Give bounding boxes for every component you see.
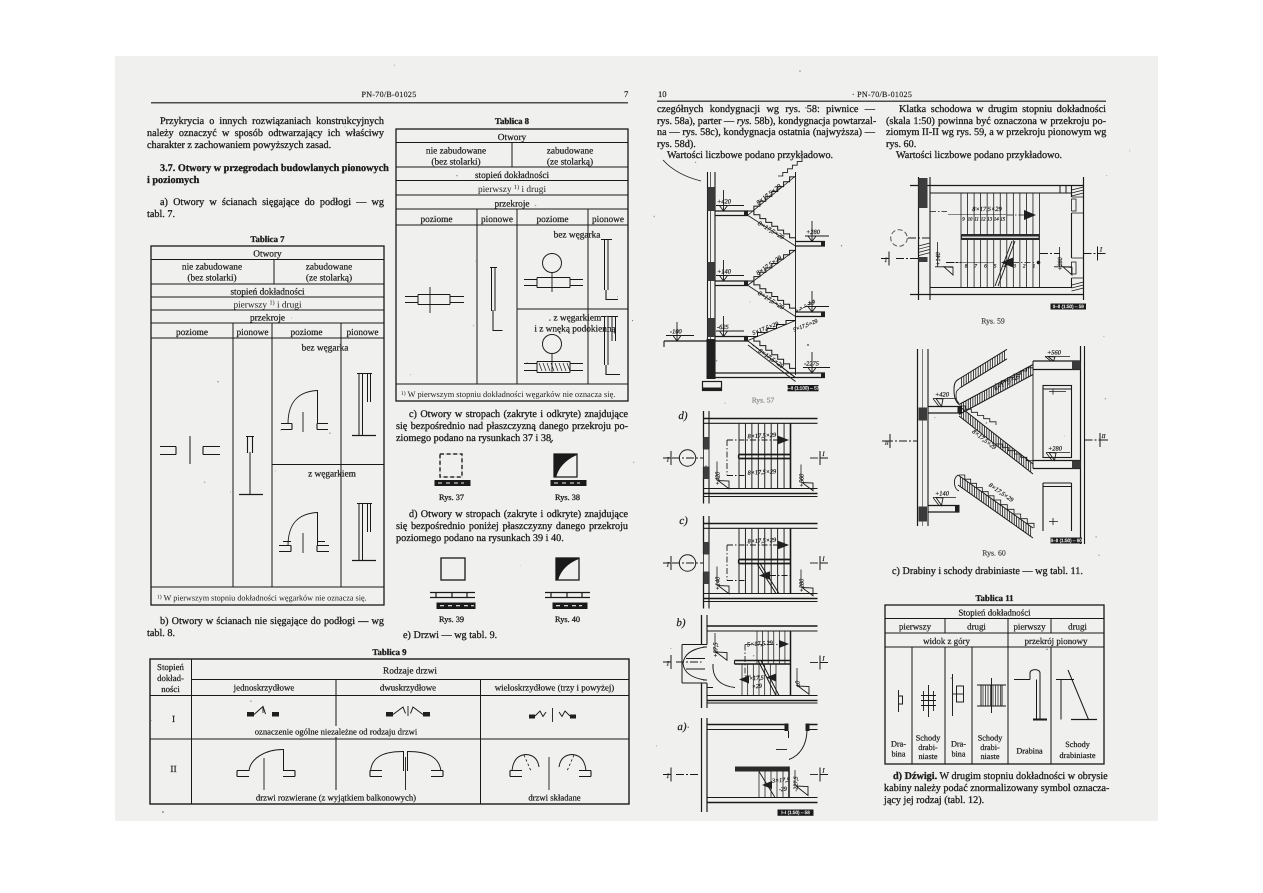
svg-text:I: I (821, 451, 825, 458)
svg-text:I: I (884, 257, 888, 264)
svg-text:±0: ±0 (808, 300, 816, 307)
svg-text:3: 3 (1013, 264, 1016, 270)
svg-text:pierwszy 1) i drugi: pierwszy 1) i drugi (478, 184, 546, 195)
svg-text:5×17,5=29: 5×17,5=29 (793, 319, 819, 334)
svg-text:1) W pierwszym stopniu dokładn: 1) W pierwszym stopniu dokładności węgar… (401, 390, 615, 399)
svg-text:a): a) (677, 721, 687, 733)
svg-text:pionowe: pionowe (346, 328, 378, 338)
svg-text:widok z góry: widok z góry (923, 636, 970, 646)
svg-text:Drabina: Drabina (1016, 747, 1043, 756)
svg-text:drzwi składane: drzwi składane (528, 792, 580, 802)
svg-text:dwuskrzydłowe: dwuskrzydłowe (380, 682, 436, 692)
svg-text:8×17,5×29: 8×17,5×29 (748, 432, 777, 440)
svg-text:drabiniaste: drabiniaste (1060, 751, 1096, 760)
svg-text:11: 11 (974, 217, 979, 223)
svg-text:I–II (1:100) – 57: I–II (1:100) – 57 (787, 386, 820, 391)
svg-text:+420: +420 (717, 199, 732, 206)
svg-text:+140: +140 (717, 269, 732, 276)
svg-text:+280: +280 (799, 578, 806, 592)
svg-text:Rodzaje drzwi: Rodzaje drzwi (383, 666, 437, 676)
svg-text:. z węgarkiem: . z węgarkiem (549, 314, 602, 324)
svg-text:Dra-: Dra- (951, 740, 966, 749)
svg-text:×29: ×29 (752, 684, 762, 691)
svg-text:+140: +140 (715, 576, 722, 590)
svg-text:8×17,5×29: 8×17,5×29 (971, 428, 998, 451)
svg-text:Rys. 59: Rys. 59 (981, 317, 1005, 326)
svg-text:I: I (666, 773, 670, 780)
svg-text:Otwory: Otwory (253, 250, 282, 260)
svg-text:+280: +280 (806, 229, 821, 236)
svg-text:12: 12 (981, 217, 986, 223)
svg-text:I: I (172, 715, 175, 725)
svg-text:13: 13 (987, 217, 992, 223)
svg-text:-100: -100 (670, 329, 683, 336)
svg-text:Stopień dokładności: Stopień dokładności (958, 607, 1031, 617)
svg-text:Dra-: Dra- (891, 740, 906, 749)
svg-text:+280: +280 (1057, 256, 1064, 270)
svg-text:c): c) (679, 515, 688, 527)
svg-text:+87,5: +87,5 (713, 642, 720, 657)
svg-text:+560: +560 (799, 473, 806, 487)
svg-text:bez węgarka: bez węgarka (302, 344, 349, 354)
svg-text:Schody: Schody (916, 734, 941, 743)
svg-text:+420: +420 (715, 471, 722, 485)
svg-text:z węgarkiem: z węgarkiem (308, 470, 357, 480)
svg-text:I: I (821, 656, 825, 663)
svg-text:I: I (666, 561, 670, 568)
svg-text:bina: bina (891, 750, 905, 759)
svg-text:II–II (1:50) – 60: II–II (1:50) – 60 (1051, 538, 1083, 543)
svg-text:przekrój pionowy: przekrój pionowy (1025, 636, 1088, 646)
svg-text:Schody: Schody (978, 734, 1003, 743)
svg-text:poziome: poziome (290, 328, 322, 338)
svg-text:dokład-: dokład- (157, 673, 184, 683)
svg-text:poziome: poziome (536, 215, 568, 225)
svg-text:-29: -29 (779, 787, 787, 794)
svg-text:I: I (1099, 247, 1103, 254)
svg-text:pierwszy: pierwszy (899, 622, 932, 632)
svg-text:+420: +420 (935, 392, 950, 399)
svg-text:drabi-: drabi- (980, 743, 1000, 752)
svg-text:8×17,5×29: 8×17,5×29 (756, 220, 785, 242)
svg-text:2: 2 (1023, 264, 1026, 270)
svg-text:8×17,5×29: 8×17,5×29 (755, 183, 783, 207)
svg-text:przekroje: przekroje (250, 314, 285, 324)
svg-text:(ze stolarką): (ze stolarką) (306, 274, 352, 284)
svg-text:ności: ności (161, 684, 180, 694)
svg-text:8×17,5×29: 8×17,5×29 (755, 254, 784, 277)
svg-text:-2275: -2275 (804, 361, 819, 368)
svg-text:Rys. 60: Rys. 60 (982, 549, 1006, 558)
svg-text:I: I (666, 456, 670, 463)
svg-text:nie zabudowane: nie zabudowane (426, 147, 486, 157)
svg-text:drabi-: drabi- (918, 743, 938, 752)
svg-text:zabudowane: zabudowane (547, 147, 593, 157)
svg-text:+140: +140 (935, 251, 942, 265)
svg-text:-227,5: -227,5 (794, 776, 800, 791)
svg-text:pionowe: pionowe (236, 328, 268, 338)
svg-text:3×17,5: 3×17,5 (771, 777, 790, 784)
svg-text:przekroje: przekroje (494, 199, 529, 209)
svg-text:10: 10 (968, 217, 973, 223)
svg-text:nie zabudowane: nie zabudowane (182, 263, 242, 273)
svg-text:Stopień: Stopień (157, 662, 184, 672)
svg-text:5: 5 (994, 264, 997, 270)
svg-text:II: II (1101, 434, 1107, 440)
svg-text:8×17,5×29: 8×17,5×29 (756, 290, 785, 312)
svg-text:II: II (170, 765, 176, 775)
svg-text:(bez stolarki): (bez stolarki) (431, 158, 480, 168)
svg-text:7: 7 (974, 264, 977, 270)
svg-text:d): d) (678, 410, 688, 422)
svg-text:pionowe: pionowe (592, 215, 624, 225)
svg-text:I: I (821, 556, 825, 563)
svg-text:Otwory: Otwory (498, 133, 527, 143)
svg-text:14: 14 (994, 217, 999, 223)
svg-text:stopień dokładności: stopień dokładności (230, 288, 305, 298)
svg-text:(bez stolarki): (bez stolarki) (187, 274, 236, 284)
svg-text:8×17,5×29: 8×17,5×29 (748, 537, 777, 545)
svg-text:(ze stolarką): (ze stolarką) (547, 158, 593, 168)
svg-text:I: I (666, 660, 670, 667)
svg-text:niaste: niaste (980, 752, 999, 761)
svg-text:Rys. 57: Rys. 57 (752, 396, 775, 405)
svg-text:drugi: drugi (1068, 622, 1087, 632)
svg-text:II–II (1:50) – 59: II–II (1:50) – 59 (1053, 304, 1085, 309)
svg-text:8×17,5×29: 8×17,5×29 (972, 206, 1002, 213)
svg-text:Schody: Schody (1065, 740, 1090, 749)
svg-text:+280: +280 (1048, 446, 1063, 453)
svg-text:poziome: poziome (176, 328, 208, 338)
svg-text:poziome: poziome (420, 215, 452, 225)
svg-text:pierwszy: pierwszy (1013, 622, 1046, 632)
svg-text:15: 15 (1000, 217, 1005, 223)
svg-text:stopień dokładności: stopień dokładności (475, 171, 550, 181)
svg-text:wieloskrzydłowe (trzy i powyże: wieloskrzydłowe (trzy i powyżej) (495, 682, 615, 692)
svg-text:I–I (1:50) – 58: I–I (1:50) – 58 (781, 810, 810, 815)
svg-text:drugi: drugi (967, 622, 986, 632)
svg-text:bina: bina (951, 750, 965, 759)
svg-text:6: 6 (984, 264, 987, 270)
svg-text:zabudowane: zabudowane (306, 263, 352, 273)
svg-text:b): b) (676, 617, 686, 629)
svg-text:1) W pierwszym stopniu dokładn: 1) W pierwszym stopniu dokładności węgar… (157, 594, 367, 603)
svg-text:1: 1 (1033, 264, 1036, 270)
svg-text:8: 8 (965, 264, 968, 270)
svg-text:I: I (821, 768, 825, 775)
svg-text:drzwi rozwierane (z wyjątkiem: drzwi rozwierane (z wyjątkiem balkonowyc… (256, 792, 416, 802)
svg-text:pionowe: pionowe (481, 215, 513, 225)
svg-text:jednoskrzydłowe: jednoskrzydłowe (233, 682, 295, 692)
svg-text:+560: +560 (1047, 350, 1062, 357)
svg-text:niaste: niaste (918, 752, 937, 761)
svg-text:-625: -625 (717, 324, 729, 331)
svg-text:+140: +140 (935, 491, 950, 498)
svg-text:5×17,5 29: 5×17,5 29 (747, 640, 773, 649)
svg-text:9: 9 (962, 217, 965, 223)
svg-text:oznaczenie ogólne niezależne o: oznaczenie ogólne niezależne od rodzaju … (255, 727, 418, 737)
svg-text:8×17,5×29: 8×17,5×29 (748, 468, 777, 476)
svg-text:bez węgarka: bez węgarka (554, 231, 601, 241)
svg-text:pierwszy 1) i drugi: pierwszy 1) i drugi (233, 300, 301, 311)
